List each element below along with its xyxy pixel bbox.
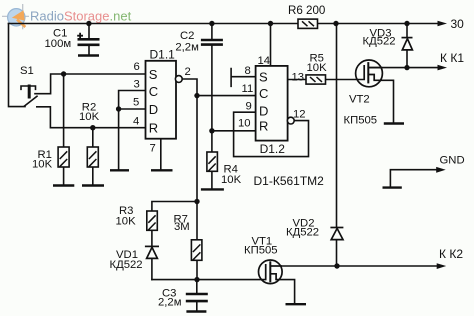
svg-text:11: 11 bbox=[242, 83, 254, 95]
svg-text:КП505: КП505 bbox=[344, 115, 378, 127]
svg-text:VT2: VT2 bbox=[349, 94, 370, 106]
svg-text:R: R bbox=[149, 121, 158, 136]
svg-text:C2: C2 bbox=[180, 30, 194, 42]
svg-text:КП505: КП505 bbox=[244, 245, 278, 257]
svg-text:2,2м: 2,2м bbox=[158, 297, 181, 309]
svg-text:КД522: КД522 bbox=[363, 36, 396, 48]
svg-text:S: S bbox=[149, 67, 158, 82]
svg-text:6: 6 bbox=[134, 61, 140, 73]
svg-text:10K: 10K bbox=[32, 159, 53, 171]
svg-text:S1: S1 bbox=[20, 65, 34, 77]
svg-text:КД522: КД522 bbox=[110, 259, 143, 271]
svg-text:R: R bbox=[259, 118, 268, 133]
svg-text:10K: 10K bbox=[307, 62, 328, 74]
svg-text:D1-К561ТМ2: D1-К561ТМ2 bbox=[254, 174, 325, 188]
svg-text:C: C bbox=[259, 86, 268, 101]
svg-text:2,2м: 2,2м bbox=[175, 41, 198, 53]
svg-text:D1.2: D1.2 bbox=[260, 142, 286, 156]
svg-text:30: 30 bbox=[451, 17, 465, 31]
svg-text:9: 9 bbox=[246, 100, 252, 112]
svg-text:КД522: КД522 bbox=[286, 227, 319, 239]
svg-text:5: 5 bbox=[133, 97, 139, 109]
svg-text:14: 14 bbox=[258, 55, 271, 67]
svg-text:2: 2 bbox=[185, 66, 191, 78]
svg-text:7: 7 bbox=[150, 143, 156, 155]
svg-text:13: 13 bbox=[292, 71, 305, 83]
svg-text:10K: 10K bbox=[221, 174, 242, 186]
svg-text:D1.1: D1.1 bbox=[150, 47, 176, 61]
svg-text:4: 4 bbox=[133, 115, 139, 127]
svg-text:К К2: К К2 bbox=[439, 247, 463, 261]
svg-text:8: 8 bbox=[245, 65, 251, 77]
svg-text:12: 12 bbox=[293, 109, 306, 121]
svg-text:10K: 10K bbox=[79, 111, 100, 123]
svg-text:GND: GND bbox=[440, 154, 465, 166]
svg-text:10: 10 bbox=[238, 118, 251, 130]
svg-text:К К1: К К1 bbox=[440, 51, 464, 65]
svg-text:R6 200: R6 200 bbox=[288, 4, 325, 17]
svg-text:3М: 3М bbox=[174, 221, 190, 233]
svg-text:C: C bbox=[149, 84, 158, 99]
svg-text:3: 3 bbox=[134, 79, 140, 91]
svg-text:100м: 100м bbox=[45, 38, 72, 50]
svg-text:S: S bbox=[259, 70, 268, 85]
svg-text:D: D bbox=[259, 104, 268, 119]
svg-text:D: D bbox=[149, 102, 158, 117]
svg-text:RadioStorage.net: RadioStorage.net bbox=[30, 8, 132, 23]
svg-text:10K: 10K bbox=[116, 215, 137, 227]
